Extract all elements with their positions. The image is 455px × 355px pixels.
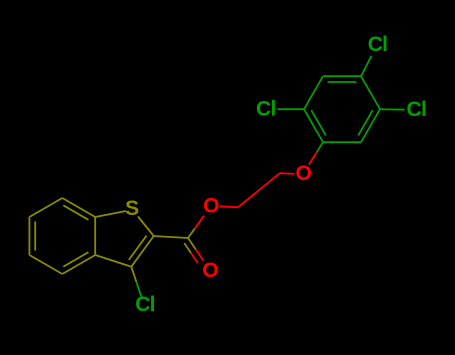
svg-text:O: O	[295, 162, 311, 185]
bond C4'-C5'	[361, 76, 380, 109]
bond C2-C3	[131, 236, 153, 267]
double bond inner line C3'=C4'	[328, 81, 357, 83]
bond C4-C5	[29, 255, 62, 274]
double bond inner line C5=C6	[34, 222, 36, 251]
svg-text:Cl: Cl	[406, 98, 426, 121]
bond C3'-C4'	[323, 75, 361, 77]
bond C5-C6	[28, 217, 30, 255]
bond C6'-C1'	[323, 141, 361, 143]
bond C=O3 second line	[184, 243, 198, 263]
bond C7a-S	[95, 211, 126, 217]
svg-text:O: O	[202, 259, 218, 282]
bond C4'-Cl	[361, 56, 372, 76]
bond CH2-CH2	[238, 173, 280, 207]
svg-text:Cl: Cl	[368, 33, 388, 56]
svg-text:Cl: Cl	[135, 293, 155, 316]
bond CH2-O2	[280, 172, 295, 175]
bond C6-C7	[29, 198, 62, 217]
bond O1-CH2	[219, 206, 238, 207]
double bond inner line C3a=C4	[63, 252, 88, 267]
bond C2'-Cl	[278, 108, 305, 110]
bond C5'-C6'	[361, 109, 380, 142]
bond O2-C1 (aryl)	[309, 142, 323, 164]
double bond inner line C5'=C6'	[358, 110, 373, 135]
svg-text:O: O	[203, 195, 219, 218]
bond C1'-C2'	[304, 109, 323, 142]
bond C7a-C3a (ring fusion)	[94, 217, 96, 255]
bond C3a-C4	[62, 255, 95, 274]
bond C2'-C3'	[304, 76, 323, 109]
svg-text:Cl: Cl	[256, 98, 276, 121]
double bond inner line C2=C3	[129, 236, 147, 260]
bond C3-C3a	[95, 255, 131, 267]
bond S-C2	[138, 217, 154, 237]
bond C7-C7a	[62, 198, 95, 217]
svg-text:S: S	[125, 197, 139, 220]
bond C=O3 main line	[188, 238, 203, 261]
double bond inner line C7=C7a	[63, 205, 88, 220]
double bond inner line C1'=C2'	[311, 110, 326, 135]
bond C3-Cl	[131, 267, 141, 297]
bond C2-C(carbonyl)	[154, 236, 188, 238]
bond C5'-Cl	[380, 108, 405, 111]
bond C-O1 (ester single)	[188, 216, 204, 238]
